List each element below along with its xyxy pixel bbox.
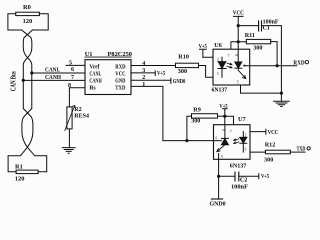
node R11/RXD junction [276, 64, 279, 67]
svg-text:R9: R9 [193, 106, 201, 113]
LED inside U7 [242, 132, 244, 138]
svg-text:5: 5 [221, 155, 223, 159]
light arrows pointing left [234, 139, 239, 141]
wire: VCC junction to R11 [238, 41, 246, 43]
node ground junction [280, 92, 283, 95]
svg-text:U6: U6 [214, 42, 222, 49]
svg-text:7: 7 [230, 130, 232, 134]
svg-text:CANH: CANH [89, 79, 102, 85]
node R9/TXD junction [185, 139, 188, 142]
svg-text:6: 6 [216, 137, 218, 141]
svg-text:3: 3 [245, 148, 247, 152]
wire: pin 1 TXD down and right [131, 86, 214, 140]
svg-text:120: 120 [15, 176, 25, 183]
svg-text:R10: R10 [178, 54, 189, 61]
svg-text:Vref: Vref [89, 65, 99, 71]
svg-text:P82C250: P82C250 [108, 51, 133, 58]
resistor R1 [15, 163, 38, 182]
wire: R9 right to V+5 node [218, 115, 225, 117]
wire: VCC to C1 [238, 25, 258, 27]
resistor R2 RES4 [65, 106, 89, 131]
node VCC/C1 junction [237, 24, 240, 27]
svg-text:CANL: CANL [45, 67, 60, 73]
svg-text:R1: R1 [15, 163, 23, 170]
wire: V+5 node to U7 pin 7 [225, 116, 234, 125]
ground (MCU side) [274, 101, 290, 106]
svg-text:7: 7 [228, 54, 230, 58]
svg-text:VCC: VCC [115, 72, 125, 78]
svg-text:VCC: VCC [233, 11, 244, 17]
svg-text:GND: GND [115, 79, 125, 85]
wire: pin 3 VCC to V+5 [131, 71, 155, 76]
svg-text:GND0: GND0 [210, 200, 226, 207]
light arrows [227, 63, 232, 65]
wire CANL [32, 72, 85, 74]
wire: twisted pair CAN bus line 2 [22, 30, 47, 172]
svg-text:300: 300 [264, 157, 273, 164]
resistor R11 [245, 32, 271, 51]
svg-text:120: 120 [23, 18, 33, 25]
wire: R0 loop left [8, 14, 22, 30]
svg-text:TXD: TXD [115, 86, 125, 92]
svg-text:RES4: RES4 [74, 113, 89, 119]
node CANH junction [22, 79, 25, 82]
photodiode inside U6 [237, 49, 239, 62]
wire: twisted pair CAN bus line 1 [8, 30, 33, 172]
svg-text:6: 6 [71, 67, 74, 73]
wire: R0 loop right [33, 14, 49, 30]
resistor R10 [176, 54, 199, 75]
node V+5/R9 junction [223, 115, 226, 118]
wire: R10 to U6 cathode [199, 66, 223, 78]
optocoupler U6 6N137 [212, 42, 250, 93]
wire: node down to GND0 [218, 176, 220, 199]
resistor R12 [264, 142, 290, 164]
wire CANH [23, 79, 85, 81]
wire: U7 GND pin to GND0 node [218, 159, 220, 176]
svg-text:R0: R0 [23, 4, 31, 11]
svg-text:TXD: TXD [297, 145, 306, 152]
wire: pin 2 GND to GND0 [131, 78, 171, 83]
wire: junction to U6 pin 7 [231, 42, 238, 49]
capacitor C2 100nF [231, 172, 248, 190]
svg-text:300: 300 [191, 119, 200, 125]
ground GND0 [211, 198, 222, 200]
wire: pin 5 Vref stub [66, 64, 85, 66]
wire: U7 cathode to R12 [250, 151, 265, 153]
svg-text:CANH: CANH [45, 75, 61, 81]
optocoupler U7 6N137 [214, 116, 251, 169]
svg-text:Rs: Rs [89, 86, 96, 92]
svg-text:300: 300 [253, 44, 262, 51]
resistor R0 [16, 4, 40, 25]
svg-text:R11: R11 [245, 32, 255, 39]
wire: U6 GND pin 5 to ground [241, 85, 282, 93]
svg-text:6N137: 6N137 [212, 87, 228, 93]
wire: pin 4 RXD to R10 [131, 65, 176, 67]
svg-text:3: 3 [217, 72, 219, 76]
wire: node to C2 [219, 175, 235, 177]
svg-text:300: 300 [178, 68, 187, 75]
wire: V+5 to U6 anode [203, 56, 222, 58]
wire: R9 left to TXD line [187, 116, 192, 140]
ground (R2) [62, 148, 75, 154]
svg-text:8: 8 [221, 129, 225, 131]
node VCC/R11/pin7 junction [237, 40, 240, 43]
svg-text:2: 2 [245, 133, 247, 137]
wire: pin 8 Rs to R2 [69, 88, 85, 107]
svg-text:RXD: RXD [293, 59, 305, 66]
wire: R11 to RXD line [271, 42, 277, 66]
svg-text:R12: R12 [265, 142, 276, 149]
wire: C2 to V+5 [239, 174, 259, 179]
svg-text:U7: U7 [238, 116, 246, 123]
svg-text:CANL: CANL [89, 72, 101, 78]
power V+5 (U6 anode) [199, 44, 207, 58]
svg-text:2: 2 [217, 57, 219, 61]
resistor R9 [191, 106, 217, 124]
svg-text:7: 7 [71, 75, 74, 81]
power V+5 (U7 top) [219, 104, 227, 125]
power VCC (top) [233, 11, 244, 50]
svg-text:5: 5 [69, 61, 72, 67]
wire: R2 to ground [68, 129, 70, 148]
svg-text:C2: C2 [240, 178, 247, 184]
svg-text:C1: C1 [263, 26, 270, 32]
node CANL junction [30, 71, 33, 74]
svg-text:8: 8 [234, 54, 238, 56]
wire: C1 to ground rail [262, 26, 282, 101]
LED inside U6 [221, 57, 223, 61]
wire: U6 output RXD line [250, 65, 297, 67]
svg-text:5: 5 [237, 80, 239, 84]
wire: R12 to TXD [290, 151, 305, 153]
svg-text:U1: U1 [85, 51, 93, 58]
svg-text:RXD: RXD [115, 65, 125, 71]
capacitor C1 100nF [259, 20, 279, 32]
op-amp U1 P82C250 transceiver [85, 51, 132, 94]
svg-text:6: 6 [244, 64, 246, 68]
svg-text:V+5: V+5 [157, 71, 165, 77]
svg-text:GND0: GND0 [173, 79, 186, 85]
svg-text:CAN Bus: CAN Bus [10, 71, 18, 91]
transistor arrow inside U6 [238, 68, 246, 78]
transistor arrow inside U7 [217, 145, 225, 152]
svg-text:1: 1 [142, 82, 145, 88]
svg-text:6N137: 6N137 [230, 163, 247, 169]
wire: U7 anode to VCC [250, 129, 266, 134]
svg-text:R2: R2 [74, 107, 81, 113]
node GND0/C2 junction [217, 175, 220, 178]
svg-text:100nF: 100nF [231, 184, 248, 190]
svg-text:V+5: V+5 [261, 174, 269, 180]
photodiode inside U7 [224, 125, 226, 138]
svg-text:VCC: VCC [268, 129, 279, 136]
